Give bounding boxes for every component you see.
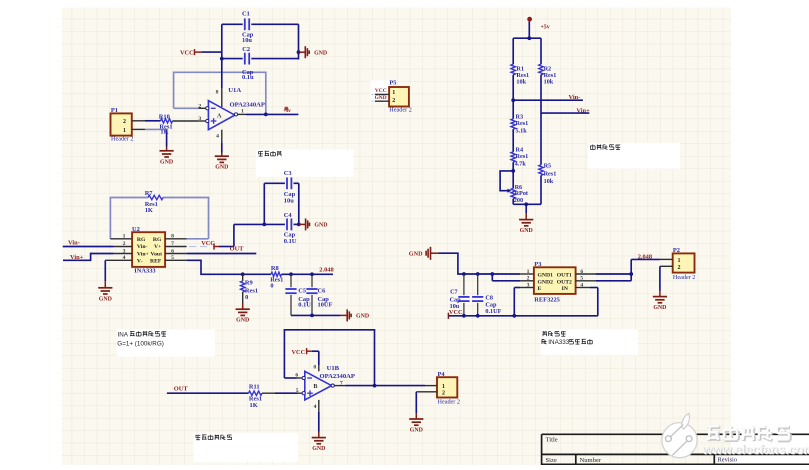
resistor R10	[159, 114, 173, 136]
svg-text:Res1: Res1	[544, 171, 557, 178]
wire U1B pin4 to ground	[318, 412, 320, 438]
svg-text:2: 2	[442, 390, 445, 396]
svg-text:R11: R11	[249, 383, 260, 390]
op-amp U1B	[295, 365, 355, 412]
svg-text:VCC: VCC	[292, 349, 306, 356]
wire R10 to U1A pin3	[173, 120, 199, 122]
net label 2.048 (C6)	[319, 266, 333, 273]
wire bridge ground stem	[525, 204, 527, 219]
svg-text:R9: R9	[245, 279, 253, 286]
resistor R8	[270, 265, 283, 290]
svg-text:C3: C3	[284, 170, 292, 177]
resistor R3	[511, 114, 528, 135]
wire U2 pin6 OUT	[187, 253, 257, 255]
ground GND (U1A)	[215, 156, 229, 171]
capacitor C6	[306, 274, 332, 315]
svg-text:8: 8	[216, 90, 219, 96]
wire U1B output to P4	[334, 384, 425, 388]
IC P3 REF3225	[520, 261, 596, 303]
power port VCC (U2 pin7)	[201, 240, 219, 250]
resistor R2	[539, 64, 557, 85]
op-amp U1A	[198, 87, 265, 142]
text frame: INA amplifier note	[117, 329, 215, 356]
potentiometer R6	[511, 184, 529, 204]
svg-text:GND: GND	[375, 95, 387, 101]
svg-text:REF: REF	[150, 259, 162, 265]
svg-text:INA333: INA333	[134, 268, 155, 275]
svg-text:GND: GND	[215, 165, 228, 171]
wire C4 branch	[234, 223, 299, 247]
wire C5/C6 bottom	[291, 314, 340, 318]
svg-text:4: 4	[216, 134, 219, 140]
svg-text:REF3225: REF3225	[534, 296, 560, 303]
svg-text:1: 1	[241, 109, 244, 115]
svg-text:6: 6	[295, 373, 298, 379]
power port +5v (bridge)	[527, 17, 550, 38]
svg-text:R8: R8	[271, 265, 279, 272]
wire R3 to R4	[512, 129, 514, 152]
svg-text:www.elecfans.com: www.elecfans.com	[702, 443, 809, 457]
wire Vin+ to U2 pin3	[63, 254, 114, 261]
net label OUT (U2)	[230, 245, 245, 252]
svg-text:U1B: U1B	[327, 365, 340, 372]
svg-text:B: B	[313, 384, 317, 390]
svg-text:R10: R10	[159, 114, 170, 121]
svg-text:2.048: 2.048	[638, 254, 652, 261]
wire U1A pin4 to ground	[221, 142, 223, 156]
svg-text:G=1+ (100k/RG): G=1+ (100k/RG)	[117, 340, 164, 347]
svg-text:Header 2: Header 2	[438, 398, 461, 405]
svg-text:GND: GND	[409, 251, 423, 258]
svg-text:0.1U: 0.1U	[284, 238, 297, 245]
svg-text:GND: GND	[314, 223, 327, 229]
svg-text:1: 1	[442, 384, 445, 390]
svg-text:OUT1: OUT1	[557, 273, 572, 279]
potentiometer R6 wiper loop	[500, 171, 513, 193]
svg-text:R5: R5	[544, 162, 552, 169]
text frame: output buffer note	[193, 433, 298, 462]
svg-text:OPA2340AP: OPA2340AP	[230, 102, 265, 109]
svg-text:10u: 10u	[284, 198, 294, 205]
capacitor C8	[472, 274, 502, 316]
wire P3 pin2 jog	[492, 274, 520, 281]
svg-text:R7: R7	[145, 190, 154, 197]
wire 2.048 rail	[241, 272, 333, 276]
svg-text:3: 3	[198, 116, 201, 122]
ground GND (C5/C6)	[340, 309, 369, 321]
wire U1A supply	[221, 59, 223, 101]
resistor R11	[249, 383, 263, 409]
svg-text:0.1UF: 0.1UF	[485, 308, 501, 315]
svg-text:GND: GND	[314, 50, 327, 56]
connector P4	[416, 371, 460, 406]
svg-text:C2: C2	[242, 46, 250, 53]
svg-text:VCC: VCC	[375, 88, 387, 94]
capacitor C2	[242, 46, 254, 81]
svg-text:Size: Size	[546, 457, 557, 464]
svg-text:Vin-: Vin-	[68, 240, 80, 247]
net label Vin+ (bridge)	[576, 108, 590, 115]
ground GND (U2)	[98, 288, 112, 303]
wire P1 pin2 to R10	[145, 120, 161, 122]
svg-text:A: A	[217, 113, 222, 119]
svg-text:Res1: Res1	[516, 120, 529, 127]
wire P4 pin2 to ground	[415, 392, 417, 419]
svg-text:GND: GND	[160, 159, 173, 165]
power port VCC (left)	[180, 49, 202, 57]
wire P3 outputs join	[596, 259, 660, 280]
svg-text:8: 8	[313, 365, 316, 371]
svg-text:P5: P5	[389, 80, 396, 87]
wire R4 to R6	[511, 162, 515, 188]
svg-text:1: 1	[123, 128, 126, 134]
svg-text:4: 4	[314, 404, 317, 410]
svg-text:RG: RG	[137, 237, 146, 243]
svg-text:2: 2	[123, 119, 126, 125]
svg-text:Header 2: Header 2	[389, 106, 412, 113]
wire R1 to Vin- node	[511, 75, 515, 119]
wire R9 to ground	[242, 304, 244, 310]
wire Vin- (bridge)	[513, 99, 583, 101]
capacitor C5	[285, 274, 311, 315]
connector P1	[111, 107, 146, 142]
wire U2 pin5 REF to 2.048 rail	[187, 260, 243, 274]
wire C3 branch	[264, 183, 299, 224]
svg-text:Title: Title	[546, 436, 558, 443]
svg-text:C1: C1	[242, 10, 250, 17]
wire OUT to R11	[167, 392, 249, 394]
svg-text:0: 0	[245, 294, 248, 301]
watermark text	[702, 426, 809, 458]
svg-text:GND: GND	[410, 428, 423, 434]
svg-text:Vin+: Vin+	[137, 252, 149, 258]
net label Vin+ (U2)	[70, 254, 84, 261]
net label 2.048 (P2)	[638, 254, 652, 261]
svg-text:GND: GND	[520, 228, 533, 234]
svg-text:4.7k: 4.7k	[515, 160, 527, 167]
ground GND (P1)	[160, 151, 174, 166]
svg-text:C5: C5	[298, 288, 306, 295]
IC U2 INA333	[105, 226, 186, 275]
wire Vin- to U2 pin2	[63, 246, 114, 248]
svg-text:C6: C6	[318, 288, 327, 295]
svg-text:2.048: 2.048	[319, 266, 333, 273]
wire U1A feedback loop	[174, 72, 266, 114]
svg-text:200: 200	[514, 197, 523, 204]
wire P2 pin2 to ground	[659, 266, 661, 296]
svg-text:U1A: U1A	[228, 87, 241, 94]
net label Vin- (bridge)	[569, 94, 581, 101]
svg-text:C7: C7	[450, 289, 458, 296]
resistor R1	[511, 64, 529, 85]
resistor R9	[241, 274, 259, 303]
svg-text:10UF: 10UF	[318, 302, 333, 309]
power port VCC (P5)	[372, 88, 387, 95]
svg-text:GND: GND	[312, 446, 325, 452]
wire U2 pin4 to ground	[104, 260, 106, 288]
wire Vin+ (bridge)	[541, 112, 589, 114]
power port VCC (bottom rail)	[448, 309, 463, 319]
svg-text:GND: GND	[236, 318, 249, 324]
svg-text:1: 1	[678, 258, 681, 264]
svg-text:Vout: Vout	[151, 252, 163, 258]
wire GND to top rail	[439, 253, 521, 276]
text frame: level shift note	[541, 329, 638, 355]
wire P3 pin4 IN to VCC rail	[590, 288, 598, 316]
text frame: small-signal bridge note	[588, 143, 680, 169]
svg-text:1: 1	[392, 90, 395, 96]
ground GND (P2)	[653, 297, 667, 312]
resistor R7	[145, 190, 163, 214]
power port VCC (U1B)	[292, 348, 312, 356]
svg-text:INA: INA	[118, 332, 129, 339]
svg-text:0: 0	[270, 283, 273, 290]
svg-text:V-: V-	[137, 259, 143, 265]
svg-text:0.1u: 0.1u	[242, 74, 254, 81]
wire U1A output	[238, 113, 299, 117]
ground GND (bridge)	[519, 220, 533, 235]
svg-text:1K: 1K	[250, 402, 258, 409]
svg-text:Number: Number	[580, 457, 602, 464]
ground GND (REF input, sideways left)	[409, 247, 439, 260]
svg-text:INA333: INA333	[548, 339, 570, 346]
wire C1 top branch	[222, 24, 299, 59]
svg-text:GND: GND	[653, 305, 666, 311]
svg-text:10k: 10k	[544, 79, 554, 86]
wire VCC to U1B pin8	[312, 351, 319, 371]
svg-text:Vin-: Vin-	[137, 244, 148, 250]
wire R11 to U1B pin5	[262, 392, 303, 394]
svg-text:0.1U: 0.1U	[298, 302, 311, 309]
ground GND (U1B)	[312, 438, 326, 453]
net label OUT (U1B)	[174, 386, 189, 393]
connector P2	[660, 247, 696, 281]
capacitor C1	[242, 10, 254, 44]
text frame: filter ripple note	[256, 150, 354, 177]
svg-text:2: 2	[198, 103, 201, 109]
wire R2 to Vin+ node	[540, 75, 542, 165]
resistor R5	[539, 162, 557, 185]
svg-text:5: 5	[296, 388, 299, 394]
svg-text:VCC: VCC	[180, 50, 194, 57]
wire ghost marks U2 pin7	[189, 246, 207, 248]
svg-text:GND2: GND2	[538, 279, 554, 285]
svg-text:1K: 1K	[160, 129, 168, 136]
svg-text:OUT2: OUT2	[557, 279, 572, 285]
ground GND (C3/C4)	[297, 218, 328, 230]
svg-text:10k: 10k	[516, 79, 526, 86]
svg-text:1K: 1K	[145, 207, 153, 214]
capacitor C4	[284, 212, 297, 245]
svg-text:Header 2: Header 2	[673, 274, 696, 281]
svg-text:2: 2	[392, 98, 395, 104]
svg-text:2: 2	[678, 265, 681, 271]
svg-text:C4: C4	[284, 212, 293, 219]
ground GND (C1/C2)	[297, 46, 328, 58]
svg-text:10u: 10u	[242, 37, 252, 44]
connector P5	[370, 80, 412, 114]
capacitor C3	[284, 170, 296, 205]
svg-text:5.1k: 5.1k	[516, 128, 528, 135]
wire VCC bottom rail	[448, 314, 597, 318]
svg-text:10k: 10k	[544, 178, 554, 185]
svg-text:GND: GND	[99, 296, 112, 302]
wire VCC to C4 branch	[219, 246, 234, 248]
wire bridge top rail	[513, 36, 541, 64]
svg-text:+5v: +5v	[541, 24, 550, 30]
svg-text:OPA2340AP: OPA2340AP	[320, 373, 355, 380]
capacitor C7	[450, 274, 470, 316]
watermark logo	[662, 414, 697, 458]
svg-text:IN: IN	[562, 286, 569, 292]
resistor R7 loop wires	[110, 198, 208, 240]
net label Vin- (U2)	[68, 240, 80, 247]
svg-text:OUT: OUT	[230, 245, 245, 252]
power port +5v (U1A output)	[283, 107, 291, 114]
wire VCC to C1/C2 node	[202, 51, 222, 53]
title block	[542, 434, 809, 465]
wire C2 branch	[220, 57, 299, 61]
power port GND (P5)	[372, 95, 387, 101]
svg-text:OUT: OUT	[174, 386, 189, 393]
ground GND (P4)	[409, 419, 423, 434]
wire P3 pin3 enable	[514, 288, 520, 316]
svg-text:GND1: GND1	[538, 273, 554, 279]
ground GND (R9)	[236, 309, 250, 324]
svg-text:Header 2: Header 2	[111, 136, 134, 143]
svg-text:RG: RG	[153, 237, 162, 243]
wire P1 pin1 to ground	[145, 129, 167, 150]
svg-text:Res1: Res1	[516, 153, 529, 160]
wire bridge bottom rail	[513, 175, 541, 206]
svg-text:V+: V+	[154, 244, 161, 250]
wire U1B feedback loop	[284, 330, 374, 386]
resistor R4	[511, 147, 528, 168]
svg-text:E: E	[538, 286, 542, 292]
svg-text:GND: GND	[356, 314, 369, 320]
